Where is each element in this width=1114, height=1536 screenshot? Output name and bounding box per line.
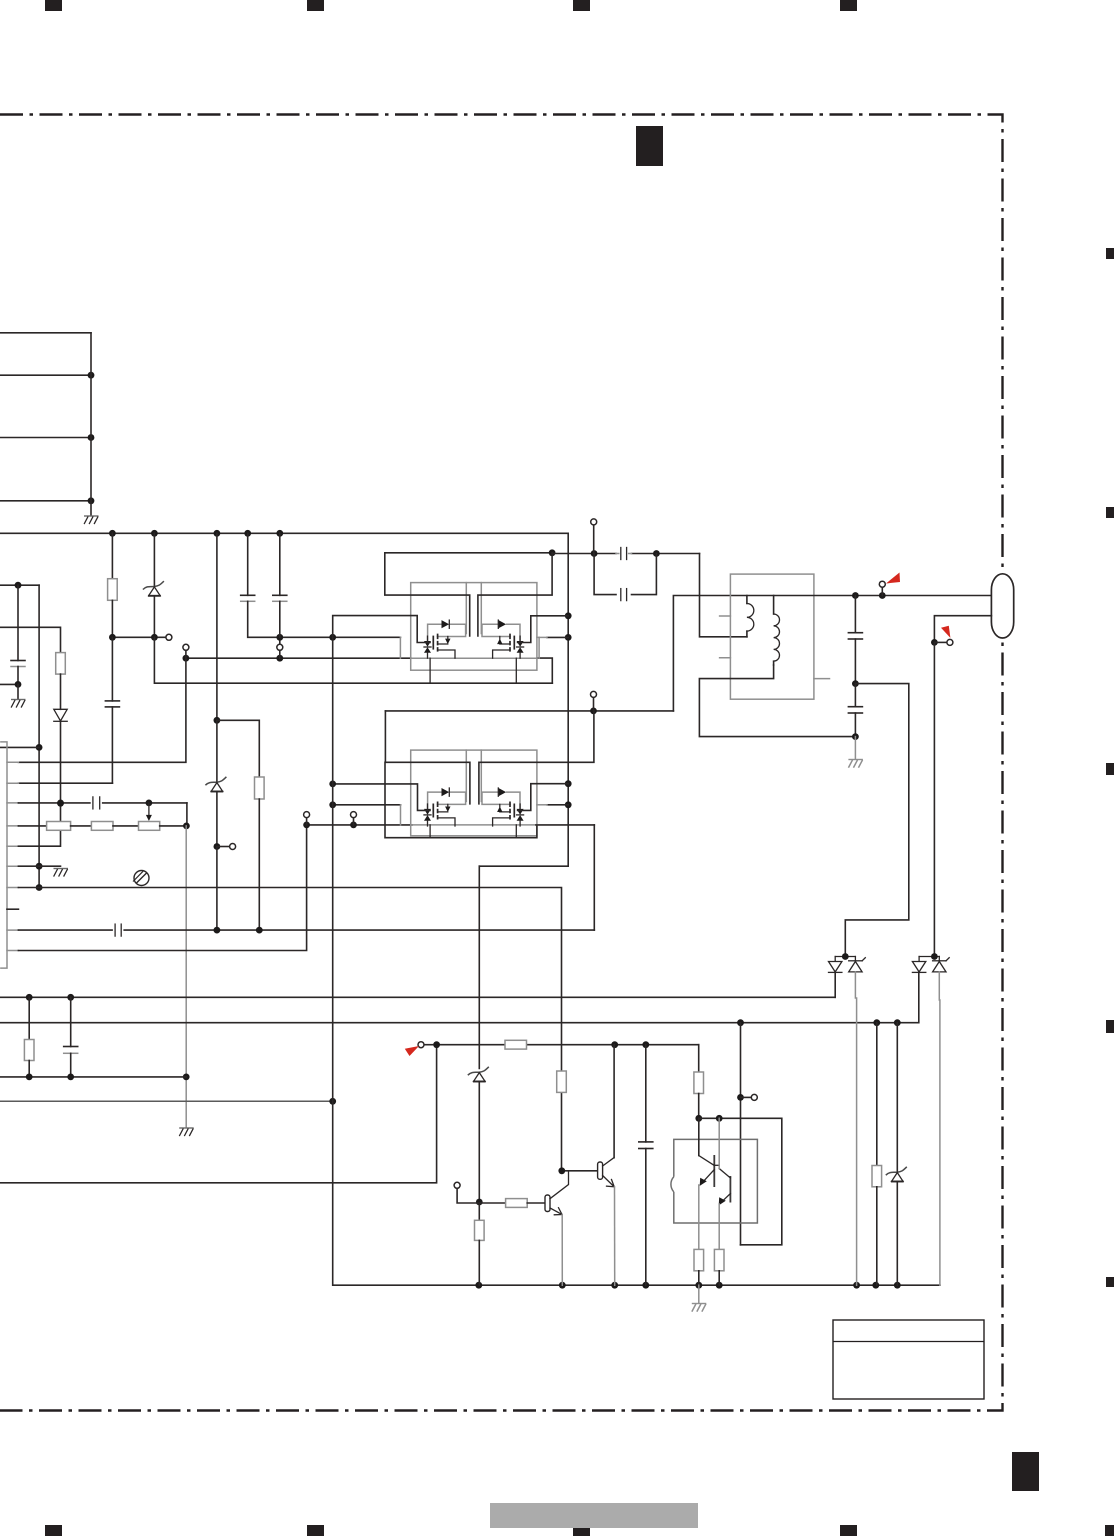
capacitor C8 (upper series cap) <box>616 548 632 560</box>
wire: control line y=1044.7 <box>433 1041 699 1048</box>
wire: IC pin y=950.5 to terminal riser <box>18 825 306 951</box>
wire: D6 anode to bus B <box>918 972 920 1022</box>
resistor R14 (series to Q6 base) <box>479 1199 545 1208</box>
connector J1: output stadium <box>991 574 1013 638</box>
wire: gate bridge to module A left <box>333 616 430 643</box>
registration mark bottom 4 <box>840 1525 857 1536</box>
terminal: circle above x=306.6 <box>304 812 310 825</box>
wire: D5 cathode down to bottom bus <box>855 972 856 1285</box>
wire: x=217 continues to y=930 <box>216 847 218 931</box>
resistor R10 (x=698.7) <box>694 1072 704 1122</box>
wire: module A inner source stubs <box>430 658 516 683</box>
wire: x=740.5 vertical with terminal <box>737 1023 744 1245</box>
IC U1 box edge (off-page left) <box>1 742 7 968</box>
terminal: base input circle x=457 <box>454 1182 479 1203</box>
wire: module A right gate link <box>518 616 569 643</box>
legend box bottom right <box>833 1320 984 1399</box>
wire: IC pin stub y=909 <box>7 908 18 910</box>
IC U1 pin stubs <box>7 762 18 950</box>
wire: center rail lower segment <box>478 866 480 1068</box>
terminal: circle above x=353.5 <box>351 812 357 825</box>
wire: module B line2 from x=332.7 <box>329 801 400 825</box>
zener diode D1 <box>143 533 164 637</box>
wire: Q5 collector node <box>558 1167 597 1174</box>
photocoupler U2: case with notch <box>671 1139 757 1223</box>
wire: center rail from bus <box>479 533 571 866</box>
wire: D7 cathode down to bottom bus corner <box>938 972 941 1285</box>
terminal: test point above y=658 at x=186 <box>183 644 189 658</box>
registration mark bottom 1 <box>45 1525 62 1536</box>
registration mark right 2 <box>1106 507 1114 518</box>
wire: IC pin y=866 with ground <box>18 866 68 876</box>
terminal: test point with red flag (x=950) <box>934 626 953 646</box>
page number box bottom right <box>1012 1452 1039 1491</box>
ground: output filter <box>848 737 863 767</box>
connector block top left: pin row 4 <box>0 497 94 504</box>
diode pair D4 D5 <box>829 953 866 972</box>
wire: cap node to transformer primary bottom <box>700 554 747 637</box>
module B (FET pair 2): gray case <box>411 750 537 836</box>
wire: U-turn at module 1 right <box>537 658 552 683</box>
wire: stub from left edge y=747 <box>0 746 39 748</box>
wire: loop around opto <box>699 1115 782 1245</box>
capacitor C7 (x=70.7) <box>64 997 78 1077</box>
capacitor C12 (x=645.8) <box>639 1045 653 1286</box>
wire: module B right gate link <box>518 784 569 811</box>
wire: main supply bus <box>0 530 568 537</box>
registration mark bottom right <box>1105 1525 1114 1536</box>
wire: module B frame return <box>385 762 537 837</box>
wire: module B left drain feed <box>385 711 470 804</box>
wire: IC pin y=930 long line <box>18 927 594 934</box>
registration mark bottom 2 <box>307 1525 324 1536</box>
wire: opto left leg to resistor R11 <box>694 1118 704 1285</box>
registration mark right 4 <box>1106 1020 1114 1033</box>
capacitor C4 (left column x=18) <box>0 582 39 688</box>
transformer T1: secondary winding <box>774 596 780 666</box>
dash-dot page border <box>0 115 1003 1411</box>
wire: x=332.7 long vertical <box>333 637 940 1288</box>
wire: rectifier2 feed from connector branch <box>933 642 935 956</box>
transformer T1: primary winding <box>747 604 754 637</box>
wire: bus A y=997.3 <box>0 994 835 1001</box>
terminal: circle x=754 <box>741 1094 758 1100</box>
transistor Q3 (opto, upper) <box>699 1155 719 1187</box>
wire: bus C y=1076.9 <box>0 1074 186 1081</box>
transformer T1: case <box>720 574 830 699</box>
registration mark right 3 <box>1106 763 1114 775</box>
wire: secondary bottom return to ground node <box>699 665 855 737</box>
registration mark right 5 <box>1106 1277 1114 1287</box>
connector block top left: pin row 1 <box>0 332 91 334</box>
terminal: circle above cap node <box>591 519 597 554</box>
wire: y=803 corner down to chain end <box>186 803 188 826</box>
registration mark top 2 <box>307 0 324 11</box>
resistor R7 (x=876.8) <box>872 1023 882 1285</box>
resistor chain R4 R5 VR1 (y=826) <box>18 822 189 831</box>
capacitor C6 (series in y=930 line) <box>115 924 121 936</box>
wire: secondary output line <box>747 592 992 599</box>
wire: IC pin y=802.9 line <box>18 800 187 807</box>
capacitor C1 (x=112 vertical) <box>18 637 119 783</box>
registration mark right 1 <box>1106 248 1114 259</box>
trimmer arrow <box>146 803 152 821</box>
wire: x=39 long vertical <box>36 585 43 891</box>
wire: y=930 corner up to y=825 line <box>593 825 595 930</box>
resistor R6 (x=29) <box>24 997 34 1077</box>
ground: below bottom bus at x=699 <box>692 1285 707 1311</box>
zener diode D2 (x=217) <box>205 720 226 850</box>
wire: Q6 emitter down to bus <box>561 1215 563 1286</box>
wire: common vertical of top-left pins <box>90 333 92 516</box>
connector block top left: pin row 3 <box>0 434 94 441</box>
registration mark bottom 3 <box>573 1525 590 1536</box>
resistor R3 + diode D3 (x=60.5) <box>0 627 67 807</box>
wire: x=217 long vertical from bus <box>214 533 221 723</box>
wire: lower output feed to connector <box>931 616 991 646</box>
capacitor C10 (output filter upper) <box>848 596 862 687</box>
resistor R9 (series y=1045) <box>505 1040 527 1049</box>
zener diode D8 (x=897.3) <box>886 1023 907 1285</box>
transistor Q4 (opto, lower) <box>719 1169 731 1206</box>
wire: coupling node row y=553.5 <box>552 550 699 557</box>
ground: x=186 bottom <box>179 1128 194 1136</box>
module A (FET pair 1): gray case <box>411 583 537 671</box>
transistor Q1b (module A right FET) <box>482 620 524 658</box>
transistor Q5 (driver NPN) <box>598 1158 615 1187</box>
wire: rectifier feed from output filter tap <box>845 684 909 957</box>
wire: gate bridge to module B left <box>329 781 430 811</box>
wire: opto right leg to resistor R12 <box>714 1118 724 1285</box>
wire: module A right drain feed <box>478 553 552 636</box>
registration mark top 4 <box>840 0 857 11</box>
wire: module B right source link <box>537 804 568 806</box>
wire: module A top drain wire <box>385 549 556 556</box>
registration mark top 3 <box>573 0 590 11</box>
wire: x=186 vertical to IC pin 1 <box>18 658 186 762</box>
capacitor C11 (output filter lower) <box>848 684 862 740</box>
wire: module B top drain wire <box>385 708 673 715</box>
resistor R2 (x=259 vertical) <box>255 777 265 930</box>
capacitor C3 (bus x=280) <box>273 533 287 637</box>
capacitor C5 (series in y=803 line) <box>93 797 100 809</box>
resistor R13 (x=562 on feedback rail) <box>557 1071 567 1092</box>
resistor R1 (bus dropper) <box>108 533 118 637</box>
wire: gray stub x=400.4 <box>399 637 401 658</box>
wire: gray vertical x=186 down to ground <box>183 826 190 1127</box>
terminal: circle above module B node <box>591 691 597 711</box>
wire: module A right source link <box>537 637 568 658</box>
transistor Q6 (input NPN) <box>545 1171 569 1215</box>
footer gray bar <box>490 1503 698 1528</box>
wire: bus D y=1101.3 <box>0 1098 336 1105</box>
no-connection symbol <box>133 871 149 886</box>
wire: Q5 collector up / emitter down <box>613 1045 616 1286</box>
wire: feedback line y=1182.8 <box>0 1045 437 1183</box>
terminal: test point above y=658 at x=280 <box>277 637 283 658</box>
wire: module A left drain feed <box>385 553 470 636</box>
section number box <box>636 126 663 166</box>
resistor R8 (rail bottom) <box>475 1203 485 1285</box>
capacitor C2 (bus x=248) <box>241 533 401 640</box>
zener diode D9 (on rail) <box>468 1067 489 1206</box>
wire: IC pin y=846 to diode node <box>18 803 60 846</box>
connector block top left: pin row 2 <box>0 372 94 379</box>
wire: zener line down to y=683 <box>154 637 552 683</box>
registration mark top 1 <box>45 0 62 11</box>
ground: top-left pins <box>84 516 99 524</box>
capacitor C9 (lower series cap loop) <box>594 554 656 601</box>
ground: left column cap <box>11 684 26 707</box>
terminal: control input with red flag <box>405 1042 433 1056</box>
diode pair D6 D7 <box>912 953 949 972</box>
terminal: output test point with red flag <box>879 573 900 596</box>
transistor Q1a (module A left FET) <box>424 620 466 658</box>
wire: block2 terminals line y=825 <box>303 822 594 829</box>
terminal: stub at x=217/y=846 <box>217 844 236 850</box>
wire: y=1045 corner down <box>698 1045 700 1072</box>
wire: D4 anode to bus A <box>834 972 836 997</box>
transistor Q2a (module B left FET) <box>424 788 466 826</box>
transistor Q2b (module B right FET) <box>482 788 524 826</box>
wire: module B right drain feed <box>479 711 594 804</box>
wire: branch to resistor at x=259 <box>217 720 259 777</box>
wire: IC pin y=887.5 long line <box>18 888 561 1171</box>
wire: primary top feed <box>673 596 747 711</box>
wire: module B inner source stubs <box>430 825 516 838</box>
wire: bus B y=1022.7 <box>0 1019 919 1026</box>
node: R1/D1 junction row <box>109 634 172 641</box>
wire: source line y=658 <box>183 655 538 662</box>
